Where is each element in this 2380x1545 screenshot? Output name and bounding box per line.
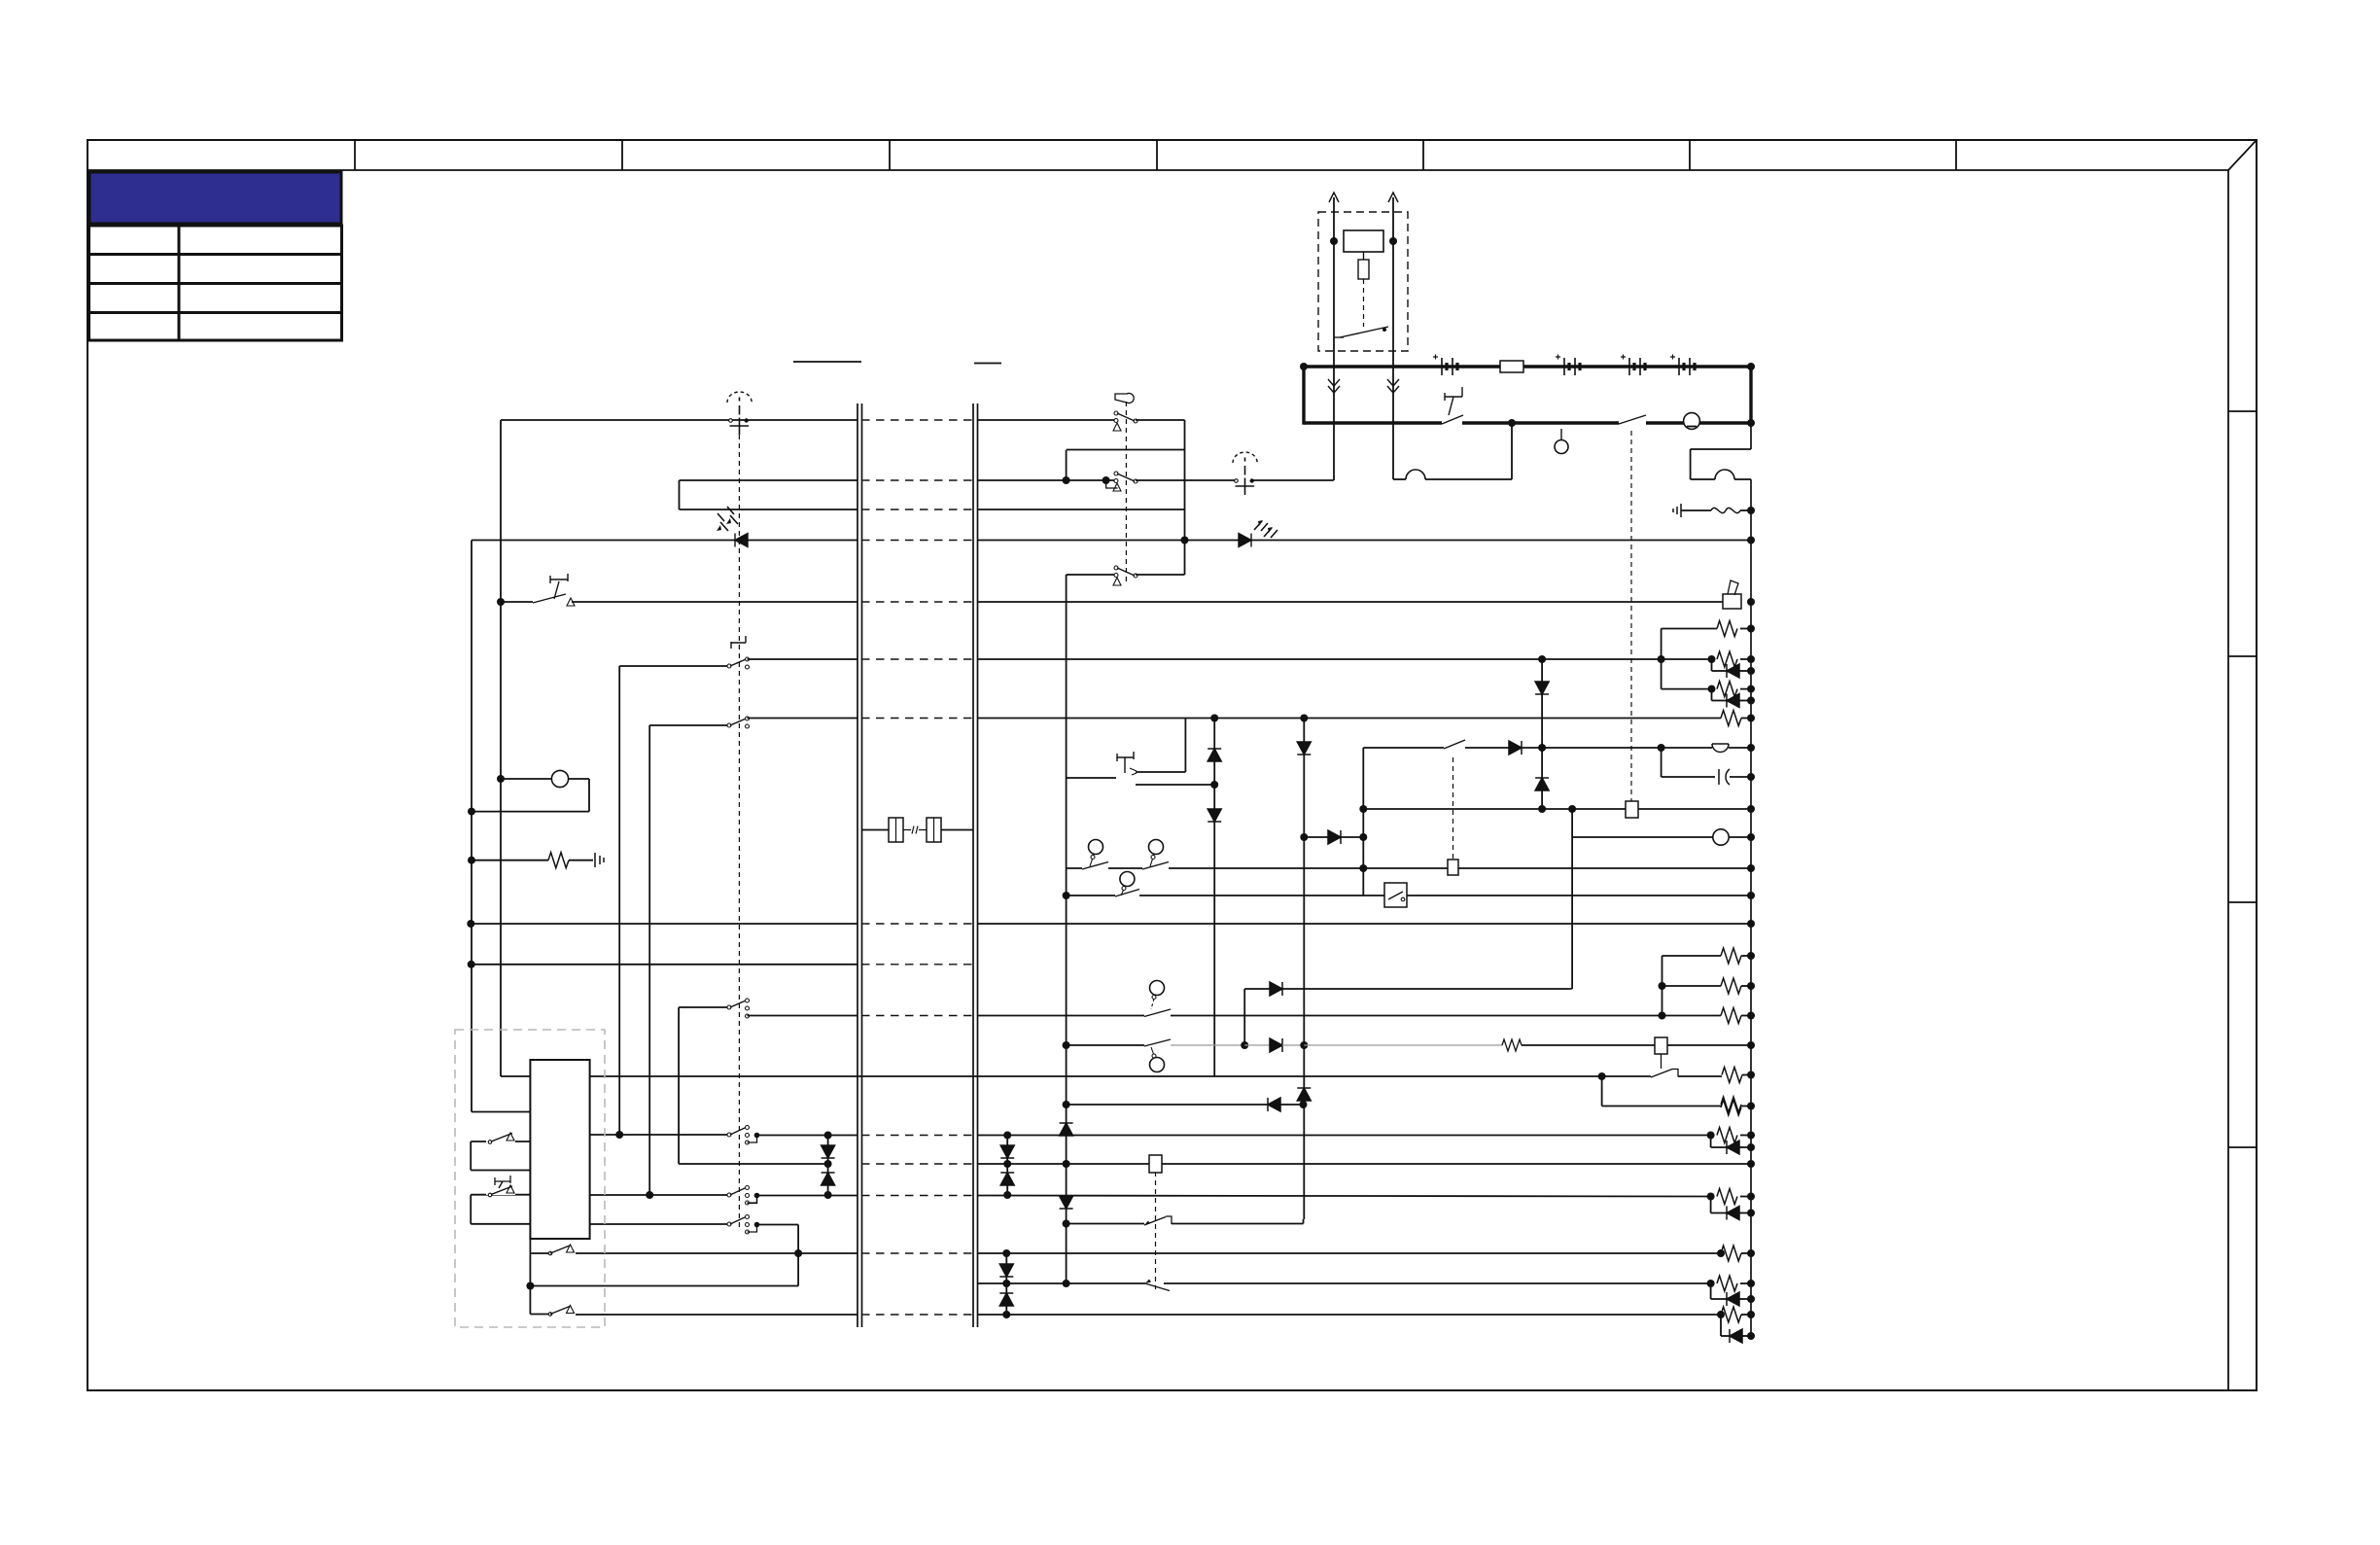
wire row 1197 right bbox=[1162, 1163, 1751, 1165]
connector plug P1 bbox=[889, 818, 903, 842]
switch S11 lever icon bbox=[1115, 394, 1134, 404]
wire row 832 left bbox=[1363, 808, 1627, 810]
diode D22 chain x1036 (up) bbox=[1000, 1173, 1014, 1185]
wire row 1075 gray c bbox=[1282, 1044, 1304, 1046]
wire rail jog bottom a bbox=[1691, 478, 1715, 480]
wire vertical x1341 bbox=[1303, 718, 1305, 1219]
relay K1 element box bbox=[1358, 260, 1369, 279]
junction row807/x1249 bbox=[1210, 781, 1218, 789]
rotary switch pole on row 1167 bbox=[727, 1133, 731, 1137]
wire K1 lead jog a bbox=[1393, 478, 1406, 480]
wire module loop1 top bbox=[471, 1141, 530, 1142]
junction row1167 x1759 bbox=[1707, 1132, 1715, 1140]
junction row1075/x1096 bbox=[1063, 1041, 1070, 1049]
switch S1 T-handle bbox=[1445, 387, 1462, 401]
junction x1341 row861 bbox=[1300, 833, 1308, 841]
junction row737/x1341 bbox=[1300, 715, 1308, 722]
wire chain x1036 bbox=[1006, 1136, 1008, 1196]
junction row1136/x1096 bbox=[1063, 1101, 1070, 1108]
junction row678 x1760 bbox=[1708, 655, 1716, 663]
temperature sender B3 bbox=[1149, 840, 1164, 855]
wire row 737 connector span (dashed) bbox=[861, 718, 973, 720]
wire lamp loop right bbox=[588, 779, 590, 812]
wire row 1075 left bbox=[1067, 1044, 1144, 1046]
wire row 884 b bbox=[569, 860, 593, 861]
junction row1075/x1341 bbox=[1300, 1041, 1308, 1049]
resistor R12 row 1289 bbox=[1721, 1246, 1741, 1261]
junction rail row832 bbox=[1747, 805, 1755, 813]
junction coil left bbox=[1330, 237, 1338, 245]
wire row 1289 b bbox=[576, 1252, 857, 1254]
wire row 1044 mid bbox=[977, 1015, 1144, 1017]
title table row rule 1 bbox=[88, 253, 341, 256]
junction rail row525 bbox=[1747, 507, 1755, 514]
wire lamp loop bottom bbox=[472, 811, 589, 813]
capacitor C1 on row 799 bbox=[1719, 769, 1730, 785]
diode D24 row 1336 bbox=[1727, 1292, 1739, 1306]
diode D19 chain x851 (down) bbox=[822, 1145, 835, 1158]
wire row 950 left bbox=[471, 923, 857, 925]
wire row 1107 right b bbox=[1678, 1075, 1722, 1077]
push-pull switch symbol on row 494 bbox=[1235, 479, 1239, 483]
junction row1289 x1770 bbox=[1717, 1249, 1725, 1257]
wire vertical x515 bbox=[500, 420, 502, 1076]
wire row 1259 from module bbox=[590, 1223, 729, 1225]
wire row 432 mid bbox=[977, 419, 1116, 421]
junction row678/x1586 bbox=[1538, 655, 1546, 663]
title table row rule 3 bbox=[88, 311, 341, 314]
relay K1 coil box bbox=[1344, 230, 1383, 252]
wire row 1017 a bbox=[1244, 988, 1270, 990]
resistor R10 row 1230 bbox=[1717, 1189, 1737, 1205]
arrowhead up relay right lead bbox=[1388, 193, 1398, 202]
diode D21 chain x1036 (down) bbox=[1000, 1145, 1014, 1158]
wire row 1229 to bus bbox=[757, 1195, 858, 1197]
resistor R11 row 1320 bbox=[1717, 1276, 1737, 1291]
diode D8 on x1341 (up) bbox=[1297, 1088, 1311, 1101]
wire row 1197 mid bbox=[977, 1163, 1149, 1165]
wire vertical x1249 bbox=[1213, 718, 1215, 1076]
junction rail row678 bbox=[1747, 655, 1755, 663]
junction rail row1105 bbox=[1747, 1071, 1755, 1079]
junction row737/x1249 bbox=[1210, 715, 1218, 722]
wire vertical x1280 bbox=[1243, 989, 1245, 1045]
wire row 619 left stub bbox=[501, 601, 533, 603]
rotary switch S10 shaft (dashed) bbox=[738, 435, 740, 1231]
resistor R13 row 1352 bbox=[1721, 1307, 1741, 1322]
wire row 678 pole feed bbox=[619, 665, 729, 667]
relay K5 contact on row 1254 bbox=[1144, 1217, 1166, 1226]
wire row 807 bbox=[1136, 784, 1214, 786]
diode D26 chain x1035 (up) bbox=[999, 1293, 1013, 1306]
wire chain x1035 lower bbox=[1005, 1253, 1007, 1315]
wire vertical x698 lower bbox=[678, 1007, 680, 1164]
title table column rule bbox=[178, 226, 181, 340]
diode D4 row 720 bbox=[1727, 694, 1739, 708]
wire rail jog top bbox=[1691, 448, 1751, 450]
resistor R9 row 1167 bbox=[1717, 1128, 1737, 1143]
wire row 1289 a bbox=[530, 1252, 550, 1254]
wire row 1167 to bus bbox=[757, 1135, 858, 1137]
relay K5 coil on row 1197 bbox=[1149, 1155, 1162, 1173]
resistor R15 row 983 bbox=[1721, 948, 1741, 964]
junction x515/row619 bbox=[497, 598, 505, 606]
junction rail row950 bbox=[1747, 920, 1755, 928]
top band divider 1 bbox=[354, 140, 356, 170]
diode D14 row 861 bbox=[1328, 830, 1341, 844]
wire row 1136 bbox=[1067, 1104, 1268, 1106]
junction row1320/x1035 bbox=[1002, 1280, 1010, 1287]
wire rail jog left bbox=[1690, 449, 1692, 479]
relay K1 contact blade bbox=[1340, 327, 1388, 337]
junction row678/x1708 bbox=[1658, 655, 1665, 663]
wire row 832 right bbox=[1638, 808, 1751, 810]
wire x1341 foot bbox=[1303, 1219, 1305, 1224]
junction chain x851 row1229 bbox=[824, 1191, 832, 1199]
wire row 800 left bbox=[1067, 777, 1116, 779]
wire row 1254 left bbox=[1067, 1223, 1144, 1225]
wire row 1352 connector span (dashed) bbox=[861, 1314, 973, 1316]
junction row832/x1402 bbox=[1359, 805, 1367, 813]
diode D13 row 769 bbox=[1509, 741, 1522, 755]
diode D25 chain x1035 (down) bbox=[999, 1264, 1013, 1277]
overline mark right of bus B bbox=[974, 363, 1001, 365]
wire rail jog bottom b bbox=[1734, 478, 1751, 480]
junction x485/row992 bbox=[468, 961, 475, 968]
frame corner diagonal bbox=[2228, 140, 2257, 170]
wire vertical x1586 bbox=[1541, 659, 1543, 809]
right margin zone tick 2 bbox=[2228, 655, 2257, 657]
contact point bbox=[1382, 328, 1386, 332]
junction row1254/x1096 bbox=[1063, 1220, 1070, 1228]
fuse F1 bbox=[1500, 361, 1523, 372]
pushbutton S3 on row 619 bbox=[550, 574, 568, 583]
frame top band bottom rule bbox=[87, 169, 2228, 171]
junction rail row1014 bbox=[1747, 982, 1755, 990]
switch S13 on row 1107 bbox=[1651, 1070, 1672, 1078]
wire row 1036 pole feed bbox=[679, 1006, 729, 1008]
wire bracket x1708 rows 647-708 bbox=[1661, 629, 1662, 689]
junction row1167/x637 bbox=[615, 1131, 623, 1139]
junction row1289/x821 bbox=[794, 1249, 802, 1257]
diode D7 on x1341 (down) bbox=[1297, 742, 1311, 755]
junction row1352 x1770 bbox=[1717, 1311, 1725, 1318]
connector bus A line 1 bbox=[857, 404, 858, 1327]
wire row 1075 gray a bbox=[1171, 1044, 1244, 1046]
wire row 992 connector span (dashed) bbox=[861, 964, 973, 966]
resistor R6 row 1075 (small) bbox=[1502, 1039, 1522, 1051]
junction row494 x1137 bbox=[1102, 476, 1110, 484]
double chevron down on right lead bbox=[1387, 379, 1399, 393]
wire row 1044 right bbox=[1171, 1015, 1662, 1017]
wire row 494 right bbox=[1136, 479, 1237, 481]
wire row 769 right bbox=[1522, 747, 1712, 749]
LED D2 on row 555 (emitter) bbox=[1239, 534, 1251, 547]
wire row 524 left bbox=[680, 509, 858, 510]
switch S2 blade bbox=[1619, 415, 1646, 424]
junction row832/x1617 bbox=[1568, 805, 1576, 813]
wire row 1107 from x515 bbox=[501, 1075, 530, 1077]
junction rail row1289 bbox=[1747, 1249, 1755, 1257]
resistor R2 row 678 bbox=[1717, 651, 1737, 667]
diode D10 on x1586 (up) bbox=[1535, 778, 1549, 790]
right margin zone tick 1 bbox=[2228, 410, 2257, 412]
relay K4 coil on row 832 bbox=[1626, 801, 1638, 818]
wire row 1107 right a bbox=[1602, 1075, 1651, 1077]
connector bus B line 2 bbox=[977, 404, 979, 1327]
wire module loop2 top bbox=[471, 1194, 530, 1196]
wire vertical x1219 rows 738-794 bbox=[1184, 719, 1186, 773]
wire battery bus row 377 (thick) bbox=[1304, 365, 1751, 368]
wire diode stub row 1336 bbox=[1710, 1283, 1712, 1299]
junction chain x1036 row1197 bbox=[1003, 1160, 1011, 1168]
wire row 1167 right bbox=[977, 1135, 1711, 1137]
junction rail row799 bbox=[1747, 773, 1755, 781]
pushbutton S4 row 800 bbox=[1117, 752, 1134, 761]
junction x485/row950 bbox=[467, 920, 474, 928]
wire row 678 right bbox=[977, 658, 1712, 660]
wire row 1229 left bbox=[589, 1194, 729, 1196]
junction coil right bbox=[1389, 237, 1397, 245]
wire vertical x485 bbox=[471, 541, 472, 1112]
wire row 1075 right bbox=[1522, 1044, 1655, 1046]
wire row 432 connector span (dashed) bbox=[861, 419, 973, 421]
junction rail row1336 bbox=[1747, 1295, 1755, 1303]
junction x515/row801 bbox=[497, 775, 505, 783]
wire row 619 connector span (dashed) bbox=[861, 601, 973, 603]
wire row 1229 right bbox=[977, 1196, 1711, 1197]
wire row 591 left bbox=[1067, 574, 1116, 576]
wire row 525 ground link bbox=[1681, 509, 1711, 511]
junction rail row769 bbox=[1747, 744, 1755, 752]
wire vertical x1617 bbox=[1571, 809, 1573, 989]
resistor R16 row 1014 bbox=[1721, 978, 1741, 994]
junction row 435 x1555 bbox=[1508, 419, 1516, 427]
junction rail row861 bbox=[1747, 833, 1755, 841]
wire row 591 right bbox=[1136, 574, 1185, 576]
diode D5 on x1249 (up) bbox=[1207, 749, 1221, 761]
wire lamp loop top b bbox=[569, 778, 589, 780]
junction rail row1180 bbox=[1747, 1143, 1755, 1151]
lamp L2 row 861 bbox=[1713, 829, 1729, 845]
switch S2 dashed actuator link down to relay K4 bbox=[1630, 431, 1632, 801]
wire module loop2 left bbox=[470, 1195, 472, 1224]
junction row1229/x668 bbox=[646, 1191, 653, 1199]
right margin zone tick 3 bbox=[2228, 901, 2257, 903]
wire jog x821 bbox=[797, 1225, 799, 1286]
wire lamp loop top a bbox=[501, 778, 552, 780]
bell B1 on row 769 bbox=[1712, 744, 1729, 753]
diode D3 row 690 bbox=[1727, 664, 1739, 678]
wire row 794 to x1219 bbox=[1136, 771, 1185, 773]
junction rail row893 bbox=[1747, 864, 1755, 872]
junction row1230 x1759 bbox=[1707, 1193, 1715, 1201]
title block table bbox=[89, 226, 342, 340]
junction rail row921 bbox=[1747, 892, 1755, 899]
sender B4 bulb bbox=[1120, 872, 1135, 887]
diode D15 row 1017 bbox=[1270, 982, 1282, 996]
wire row 1352 b bbox=[576, 1314, 857, 1316]
wire row 619 mid bbox=[572, 601, 857, 603]
rotary switch pole on row 678 bbox=[727, 664, 731, 668]
resistor R8 row 1137 (double) bbox=[1721, 1097, 1741, 1112]
wire diode stub row 690 bbox=[1711, 659, 1713, 671]
wire row 1167 left bbox=[589, 1134, 729, 1136]
switch S16 on row 1352 bbox=[548, 1313, 552, 1317]
wire row 647 bbox=[1662, 628, 1717, 630]
wire row 737 pole feed bbox=[649, 724, 729, 726]
junction row708 x1760 bbox=[1708, 685, 1716, 693]
top band divider 5 bbox=[1422, 140, 1424, 170]
junction rail row619 bbox=[1747, 598, 1755, 606]
junction x485/row884 bbox=[468, 857, 475, 864]
top band divider 6 bbox=[1689, 140, 1691, 170]
double chevron down on left lead bbox=[1328, 379, 1340, 393]
wire row 853 b bbox=[941, 829, 973, 831]
wire vertical x1096 main bbox=[1066, 575, 1067, 1283]
junction row1322/x545 bbox=[526, 1282, 534, 1290]
wire rail upper segment bbox=[1750, 423, 1752, 449]
rotary switch shaft handle bbox=[731, 636, 746, 649]
wire hop on K1 lead jog bbox=[1406, 470, 1425, 479]
wire row 494 to relay lead bbox=[1252, 479, 1334, 481]
wire vertical x545 below module bbox=[529, 1239, 531, 1315]
wire row 893 left bbox=[1067, 867, 1082, 869]
wire row 494 connector span (dashed) bbox=[861, 479, 973, 481]
wire row 992 left bbox=[472, 964, 857, 966]
wire row 708 bbox=[1662, 688, 1712, 690]
battery G3 bbox=[1628, 358, 1630, 375]
wire row 769 mid bbox=[1465, 747, 1509, 749]
junction row1167/x851 bbox=[824, 1132, 832, 1140]
flasher box K6 bbox=[1384, 883, 1407, 907]
junction rail row1374 bbox=[1747, 1332, 1755, 1340]
pushbutton S6 module loop2 bbox=[486, 1185, 515, 1195]
switch S12 shaft (dashed) bbox=[1452, 757, 1454, 860]
rotary switch pole on row 1229 bbox=[727, 1193, 731, 1197]
sender B6 bulb bbox=[1150, 1058, 1165, 1072]
rotary switch changeover on row 1259 bbox=[727, 1222, 731, 1226]
wire row 884 a bbox=[472, 860, 548, 861]
junction row1136/x1341 bbox=[1300, 1101, 1308, 1108]
junction row1320 x1759 bbox=[1707, 1280, 1715, 1287]
connector bus B line 1 bbox=[972, 404, 974, 1327]
switch S11 shaft (dashed) bbox=[1125, 402, 1127, 583]
diode D23 row 1247 bbox=[1727, 1207, 1739, 1220]
diode D6 on x1249 (down) bbox=[1207, 809, 1221, 822]
wire thick riser right rail bbox=[1749, 367, 1752, 425]
wire row 1352 right bbox=[977, 1314, 1721, 1316]
rotary switch pole on row 737 bbox=[727, 723, 731, 727]
wire row 1075 gray b bbox=[1244, 1044, 1270, 1046]
wire diode stub row 1180 bbox=[1710, 1136, 1712, 1148]
wire row 1167 connector span (dashed) bbox=[861, 1135, 973, 1137]
lamp L3 bbox=[551, 770, 568, 787]
top band divider 3 bbox=[889, 140, 891, 170]
diode D12 on x1096 (down) bbox=[1060, 1196, 1073, 1209]
wire row 950 right bbox=[977, 923, 1751, 925]
wire row 1289 right bbox=[977, 1252, 1721, 1254]
wire row 737 to bus bbox=[748, 718, 858, 720]
junction x1709 row1014 bbox=[1659, 982, 1666, 990]
wire row 1229 connector span (dashed) bbox=[861, 1195, 973, 1197]
wire row 432 left bbox=[501, 419, 857, 421]
connector plug P2 bbox=[927, 818, 941, 842]
wire blade pivot stub bbox=[1334, 336, 1344, 338]
title table row rule 2 bbox=[88, 282, 341, 285]
drawing frame outer border bbox=[87, 140, 2257, 1390]
junction row769/x1586 bbox=[1538, 744, 1546, 752]
relay K5 actuator shaft (dashed) bbox=[1155, 1172, 1157, 1289]
battery G4 bbox=[1678, 358, 1680, 375]
connector bus A line 2 bbox=[861, 404, 863, 1327]
wire row 494 left bbox=[680, 479, 858, 481]
wire row 1017 b bbox=[1282, 988, 1572, 990]
sender B5 bulb bbox=[1150, 981, 1165, 996]
wire row 1014 bbox=[1662, 985, 1722, 987]
junction rail row708 bbox=[1747, 685, 1755, 693]
wire row 1289 connector span (dashed) bbox=[861, 1252, 973, 1254]
overline mark left of bus A bbox=[793, 361, 861, 363]
relay K8 coil on row 893 bbox=[1448, 860, 1458, 875]
junction row555 x1218 bbox=[1181, 537, 1189, 544]
junction row1075/x1280 bbox=[1241, 1041, 1248, 1049]
wire row 1137 right bbox=[1602, 1106, 1721, 1107]
junction rail row647 bbox=[1747, 625, 1755, 633]
wire row 678 connector span (dashed) bbox=[861, 658, 973, 660]
resistor R14 row 884 bbox=[548, 853, 569, 868]
wire starter bus row 435 (thick) bbox=[1304, 421, 1751, 424]
junction rail row1167 bbox=[1747, 1132, 1755, 1140]
wire row 921 left bbox=[1067, 895, 1115, 896]
wire vertical x637 bbox=[618, 666, 620, 1135]
wire row 619 right bbox=[977, 601, 1723, 603]
motor M symbol on row 435 bbox=[1684, 413, 1700, 430]
resistor R3 row 708 bbox=[1717, 682, 1737, 697]
junction rail row1044 bbox=[1747, 1012, 1755, 1020]
wire vertical x1402 bbox=[1362, 748, 1364, 895]
diode D18 row 1180 bbox=[1727, 1141, 1739, 1154]
switch S2 gap on row 435 bbox=[1619, 419, 1646, 427]
wire row 1322 link bbox=[530, 1285, 798, 1287]
junction chain x851 row1197 bbox=[824, 1160, 832, 1168]
junction battery bus left bbox=[1300, 363, 1308, 370]
wire lamp stub under row 435 bbox=[1560, 429, 1562, 439]
junction row1320/x1096 bbox=[1063, 1280, 1070, 1287]
wire row 525 to rail bbox=[1740, 509, 1751, 511]
top band divider 7 bbox=[1955, 140, 1957, 170]
switch S11 pole on row 494 bbox=[1114, 472, 1118, 475]
switch S1 gap on row 435 bbox=[1442, 419, 1462, 427]
wire diode stub row 1247 bbox=[1710, 1197, 1712, 1213]
switch S11 pole on row 432 bbox=[1114, 411, 1118, 415]
junction row1167/x1036 bbox=[1003, 1132, 1011, 1140]
resistor R7 row 1105 bbox=[1722, 1068, 1742, 1083]
switch S12 on row 769 bbox=[1444, 740, 1465, 749]
wire row 555 left bbox=[472, 540, 735, 542]
wire row 1197 left bbox=[679, 1163, 828, 1165]
wire row 555 connector span (dashed) bbox=[861, 540, 973, 542]
horn H1 on row 619 bbox=[1723, 594, 1741, 609]
diode D20 chain x851 (up) bbox=[822, 1173, 835, 1185]
wire row 1352 a bbox=[530, 1314, 550, 1316]
junction rail row1197 bbox=[1747, 1160, 1755, 1168]
title block blue header bbox=[89, 172, 341, 224]
junction rail row555 bbox=[1747, 537, 1755, 544]
junction row769/x1708 bbox=[1658, 744, 1665, 752]
junction hook row1167 bbox=[754, 1133, 760, 1139]
resistor R4 row 737 bbox=[1721, 711, 1741, 726]
